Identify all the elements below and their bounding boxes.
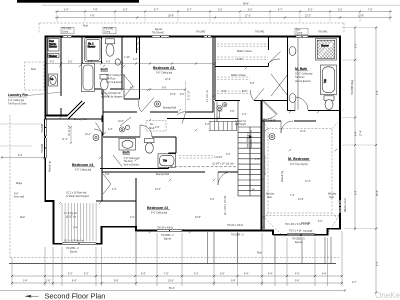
svg-text:Egress: Egress bbox=[70, 250, 78, 253]
svg-text:TW 2442: TW 2442 bbox=[104, 29, 114, 31]
bath2 inner door diagonal bbox=[113, 155, 122, 167]
svg-text:Tile Floor w/ Drain: Tile Floor w/ Drain bbox=[8, 103, 27, 106]
window header labels above top wall bbox=[61, 27, 328, 34]
bedroom2 closet door diagonals bbox=[103, 174, 111, 194]
svg-text:TW 2/4x4/6: TW 2/4x4/6 bbox=[152, 32, 164, 34]
window label bay egress bbox=[64, 240, 84, 254]
bottom extension lines bbox=[12, 231, 342, 286]
svg-text:Walk In Closet: Walk In Closet bbox=[231, 74, 246, 77]
svg-text:M. Bedroom: M. Bedroom bbox=[288, 157, 310, 161]
svg-text:4'-2": 4'-2" bbox=[68, 274, 73, 276]
svg-text:Seat: Seat bbox=[267, 196, 272, 199]
exterior bottom stepped walls bbox=[45, 200, 341, 244]
svg-text:4'-6": 4'-6" bbox=[322, 274, 327, 276]
svg-text:TW 2842: TW 2842 bbox=[196, 32, 206, 34]
left roof dashed vertical bbox=[9, 115, 11, 258]
room label bedroom3 bbox=[153, 66, 176, 75]
bedroom4 south wall y=201 bbox=[45, 200, 137, 202]
svg-text:Pant: Pant bbox=[49, 40, 54, 43]
svg-text:10'-0" Ceiling hgt: 10'-0" Ceiling hgt bbox=[295, 73, 313, 76]
hall west wall x=103 bbox=[102, 89, 104, 136]
bedroom2 door swing bbox=[218, 172, 231, 185]
svg-text:Bedroom #3: Bedroom #3 bbox=[153, 66, 174, 70]
room label bedroom4 bbox=[72, 163, 95, 172]
bedroom3 closet bifold doors bbox=[124, 74, 133, 99]
bath2 sink bbox=[119, 139, 136, 151]
svg-text:(2) 2 x 10 Flush hdr: (2) 2 x 10 Flush hdr bbox=[101, 92, 121, 95]
svg-text:Hand Railing w/: Hand Railing w/ bbox=[248, 132, 250, 148]
svg-text:28'-4": 28'-4" bbox=[377, 190, 379, 196]
stairwell upper west wall bbox=[215, 102, 218, 122]
top dimension row B bbox=[55, 15, 392, 18]
svg-text:(2) 1 3/4" x 14" LVL: (2) 1 3/4" x 14" LVL bbox=[225, 195, 227, 215]
svg-text:Vent to Exterior: Vent to Exterior bbox=[106, 81, 122, 84]
svg-text:6'-7": 6'-7" bbox=[154, 9, 159, 11]
plan title bbox=[25, 292, 106, 300]
svg-text:TW 2442: TW 2442 bbox=[318, 32, 328, 34]
bedroom4 door swing bbox=[94, 123, 102, 133]
svg-text:Dmr: Dmr bbox=[296, 29, 301, 32]
room label bedroom2 bbox=[147, 206, 170, 215]
bath1 toilet lower bbox=[100, 75, 108, 91]
svg-text:Bearing Wall: Bearing Wall bbox=[74, 118, 87, 121]
svg-text:Walk In Closet: Walk In Closet bbox=[237, 50, 252, 53]
svg-text:9'-0": 9'-0" bbox=[222, 91, 227, 93]
stair east bearing wall x=262 bbox=[261, 101, 263, 231]
svg-text:4'-0" Ceiling hgt: 4'-0" Ceiling hgt bbox=[124, 157, 140, 160]
svg-text:4'-2": 4'-2" bbox=[194, 274, 199, 276]
svg-text:Window: Window bbox=[328, 194, 337, 196]
bay ceiling joists bbox=[62, 203, 96, 241]
master bedroom door swing bbox=[281, 121, 293, 133]
linen closet dashed bbox=[146, 121, 166, 132]
svg-text:6'-7": 6'-7" bbox=[187, 9, 192, 11]
bedroom3 door swing bbox=[177, 112, 186, 124]
leader arrow marks bbox=[59, 65, 337, 233]
svg-text:6'-2": 6'-2" bbox=[248, 9, 253, 11]
master shower bbox=[316, 39, 337, 61]
stair up arrow bbox=[248, 134, 255, 192]
svg-text:2'-7": 2'-7" bbox=[352, 282, 357, 284]
staircase bbox=[238, 101, 262, 196]
master bedroom tray ceiling dashed bbox=[263, 123, 338, 220]
bedroom4 east wall x=102 bbox=[101, 116, 103, 202]
svg-text:17'-0": 17'-0" bbox=[305, 181, 311, 183]
svg-text:5'-2": 5'-2" bbox=[205, 124, 210, 126]
svg-text:56'-4": 56'-4" bbox=[169, 288, 175, 290]
laundry cabinets bbox=[48, 39, 59, 58]
svg-text:Seat: Seat bbox=[329, 196, 334, 199]
svg-text:Roof: Roof bbox=[83, 26, 88, 28]
landing south wall y=118.5 bbox=[167, 119, 316, 122]
svg-text:13'-0": 13'-0" bbox=[298, 199, 304, 201]
bedroom2 north bearing wall bbox=[102, 171, 238, 173]
svg-text:Knee wall: Knee wall bbox=[14, 197, 24, 199]
note clg jst bbox=[64, 212, 77, 218]
plumbing wall bedroom3 bbox=[137, 37, 140, 54]
master bath west wall x=287.5 bbox=[287, 37, 289, 111]
svg-text:M. Bath: M. Bath bbox=[295, 67, 307, 71]
svg-text:2'-4": 2'-4" bbox=[242, 114, 247, 116]
closet door swings bbox=[250, 52, 288, 101]
svg-text:Balusters @ 3" oc: Balusters @ 3" oc bbox=[250, 129, 253, 148]
svg-text:5'-8": 5'-8" bbox=[114, 281, 119, 283]
svg-text:13'-4": 13'-4" bbox=[155, 189, 161, 191]
svg-text:7'-8": 7'-8" bbox=[90, 15, 95, 17]
room label bath2 bbox=[123, 151, 140, 167]
hall circle symbols pair 2 bbox=[119, 125, 129, 132]
roof overhang dashed line top bbox=[39, 22, 344, 24]
svg-text:8'-4": 8'-4" bbox=[356, 131, 358, 136]
knee wall note bbox=[14, 194, 24, 199]
svg-text:6'-2": 6'-2" bbox=[123, 9, 128, 11]
right extension lines bbox=[342, 28, 378, 229]
svg-text:6'-10": 6'-10" bbox=[237, 59, 243, 61]
svg-text:12'-4": 12'-4" bbox=[85, 134, 91, 136]
svg-text:Egress: Egress bbox=[295, 241, 303, 244]
beam line bedroom2 bbox=[170, 166, 238, 168]
bottom dimension row 1 bbox=[11, 274, 343, 278]
bottom dimension row 3 overall bbox=[0, 282, 357, 292]
walk-in closet south wall y=99.5 bbox=[215, 100, 288, 102]
bath2 toilet bbox=[145, 139, 155, 154]
svg-text:CC 2 x 10 Flush hdr: CC 2 x 10 Flush hdr bbox=[66, 192, 87, 195]
closet hanging rods dashed bbox=[217, 44, 268, 93]
svg-text:6'-2": 6'-2" bbox=[338, 9, 343, 11]
bottom roof dashed overhang bbox=[10, 257, 341, 259]
svg-text:4'-0": 4'-0" bbox=[226, 154, 231, 156]
shower no1 bbox=[85, 38, 102, 62]
svg-text:9'-6": 9'-6" bbox=[295, 281, 300, 283]
svg-text:10'-8": 10'-8" bbox=[195, 217, 201, 219]
top dimension row A bbox=[55, 9, 392, 12]
svg-text:10'-6": 10'-6" bbox=[168, 281, 174, 283]
note roof hip bbox=[66, 192, 90, 198]
svg-text:9'-0": 9'-0" bbox=[180, 94, 185, 96]
svg-text:3'-0": 3'-0" bbox=[218, 111, 223, 113]
svg-text:98'-8": 98'-8" bbox=[243, 3, 249, 5]
exterior left wall bbox=[45, 36, 47, 201]
svg-text:2R 7 x 11 up: 2R 7 x 11 up bbox=[263, 119, 277, 121]
bath1 door swing bbox=[101, 89, 109, 98]
svg-text:Bedroom #4: Bedroom #4 bbox=[72, 163, 94, 167]
svg-text:6'-7": 6'-7" bbox=[278, 9, 283, 11]
left roof dashed box bbox=[25, 62, 45, 90]
svg-text:Tile Floor: Tile Floor bbox=[124, 160, 134, 163]
svg-text:Vent to: Vent to bbox=[49, 43, 57, 46]
smoke detector bedroom3 bbox=[155, 101, 161, 107]
svg-text:Ridge: Ridge bbox=[16, 183, 23, 185]
exterior top wall bbox=[45, 36, 340, 38]
svg-text:Shower: Shower bbox=[88, 45, 96, 48]
note flush hdr hall west bbox=[101, 92, 123, 98]
svg-text:Laundry Rm: Laundry Rm bbox=[8, 93, 28, 97]
svg-text:@ 16" o/c: @ 16" o/c bbox=[66, 216, 77, 218]
svg-text:Roof: Roof bbox=[31, 69, 36, 71]
svg-text:Tile Floor: Tile Floor bbox=[106, 78, 116, 81]
svg-text:12'-0": 12'-0" bbox=[300, 131, 306, 133]
svg-text:5'-10 1/2": 5'-10 1/2" bbox=[189, 90, 191, 100]
svg-text:9'-0": 9'-0" bbox=[162, 87, 167, 89]
stair railing balusters bbox=[209, 122, 237, 131]
svg-text:2 J 1/2 x 10: 2 J 1/2 x 10 bbox=[207, 89, 209, 102]
room label laundry bbox=[8, 92, 62, 106]
window seat labels bbox=[266, 194, 337, 199]
bedroom4 north bearing wall y=119 bbox=[45, 118, 103, 120]
svg-text:9'-0" Ceiling hgt: 9'-0" Ceiling hgt bbox=[156, 72, 172, 75]
laundry south wall bbox=[45, 115, 68, 117]
svg-text:Roof: Roof bbox=[20, 217, 25, 219]
bedroom2 west wall x=136 bbox=[135, 178, 137, 226]
svg-text:2x8 Height: 2x8 Height bbox=[235, 123, 246, 126]
svg-text:OneKey: OneKey bbox=[375, 291, 400, 300]
bath2 south wall bbox=[100, 168, 169, 170]
svg-text:5'-0": 5'-0" bbox=[318, 221, 323, 223]
svg-text:4'-2": 4'-2" bbox=[133, 59, 138, 61]
exterior right wall bbox=[339, 36, 341, 229]
svg-text:4'-0": 4'-0" bbox=[88, 61, 93, 63]
svg-text:TW 2852 - 2: TW 2852 - 2 bbox=[292, 239, 305, 241]
svg-text:1'-8 3/4": 1'-8 3/4" bbox=[214, 157, 223, 159]
roof hip dashed right bbox=[262, 216, 339, 235]
smoke detector bedroom4 bbox=[93, 135, 99, 141]
svg-text:Vent to Exterior: Vent to Exterior bbox=[295, 80, 311, 83]
svg-text:Washer: Washer bbox=[49, 55, 57, 58]
svg-text:12'-2": 12'-2" bbox=[305, 15, 311, 17]
svg-text:4'-6": 4'-6" bbox=[295, 274, 300, 276]
svg-text:TW 2/4 x 4/6 tilt: TW 2/4 x 4/6 tilt bbox=[157, 227, 173, 230]
laundry diagonal walls bbox=[67, 101, 85, 119]
bath2 door swing bbox=[140, 125, 152, 137]
svg-text:6'-2": 6'-2" bbox=[218, 9, 223, 11]
bath tub fixture left bbox=[82, 64, 95, 92]
svg-text:(2) 1 3/4" x 14" LVL: (2) 1 3/4" x 14" LVL bbox=[265, 155, 267, 175]
svg-text:1'-10": 1'-10" bbox=[124, 57, 130, 59]
svg-text:3'-6": 3'-6" bbox=[220, 274, 225, 276]
bottom dimension row 2 bbox=[11, 281, 343, 285]
svg-text:Egress: Egress bbox=[155, 28, 163, 31]
title bar bbox=[17, 0, 139, 3]
hall dim line bbox=[121, 87, 186, 90]
left leader line 2 bbox=[0, 145, 32, 147]
svg-text:9'-4": 9'-4" bbox=[18, 155, 23, 157]
bedroom3 hall door swing 2 bbox=[139, 98, 154, 112]
svg-text:11'-4": 11'-4" bbox=[62, 139, 68, 141]
svg-text:2'-0": 2'-0" bbox=[130, 217, 135, 219]
window label bedroom2 bbox=[157, 227, 174, 241]
bedroom3 south wall y=111.8 bbox=[103, 111, 214, 113]
svg-text:TW 2442: TW 2442 bbox=[62, 29, 72, 31]
svg-text:Bath: Bath bbox=[101, 68, 109, 72]
svg-text:12'-8": 12'-8" bbox=[358, 15, 364, 17]
svg-text:3'-4": 3'-4" bbox=[23, 281, 28, 283]
left leader line bbox=[0, 123, 42, 125]
bedroom4 interior dim line bbox=[70, 126, 72, 144]
roof edge verticals bottom bbox=[136, 232, 331, 264]
window end ticks bbox=[44, 35, 341, 245]
bedroom3 closet east wall bbox=[124, 53, 140, 99]
master bath south wall y=110.5 bbox=[288, 110, 341, 112]
svg-text:4'-6": 4'-6" bbox=[268, 274, 273, 276]
bath2 tub bbox=[158, 154, 176, 168]
svg-text:TW 2846 2hng: TW 2846 2hng bbox=[352, 79, 354, 95]
svg-text:TW 2 x 4 tilt: TW 2 x 4 tilt bbox=[289, 230, 301, 233]
svg-text:TW 2846 - 2: TW 2846 - 2 bbox=[161, 235, 174, 237]
bedroom3 interior dim extension bbox=[185, 81, 187, 111]
svg-text:Window Seat: Window Seat bbox=[344, 198, 347, 212]
svg-text:Comp: Comp bbox=[62, 32, 69, 34]
walk-in closet divider wall y=66 bbox=[215, 37, 269, 67]
hall circle symbols bbox=[217, 103, 227, 119]
svg-text:Comp: Comp bbox=[104, 32, 111, 34]
bedroom3 east wall x=213 bbox=[212, 37, 214, 113]
svg-text:8'-0": 8'-0" bbox=[242, 91, 247, 93]
room label master bedroom bbox=[288, 157, 310, 166]
svg-text:4'-6": 4'-6" bbox=[244, 274, 249, 276]
wall bath east x=122 bbox=[121, 37, 123, 77]
svg-text:9'-0" Ceiling hgt: 9'-0" Ceiling hgt bbox=[151, 212, 167, 215]
master toilet bbox=[324, 96, 334, 110]
svg-text:Window: Window bbox=[266, 194, 275, 196]
svg-text:7'-4": 7'-4" bbox=[73, 227, 78, 229]
window label master recessed bbox=[285, 223, 309, 244]
svg-text:No. 1: No. 1 bbox=[88, 44, 94, 46]
svg-text:8'-4": 8'-4" bbox=[72, 281, 77, 283]
bath south wall y=89 bbox=[82, 76, 122, 89]
interior dim labels scatter bbox=[62, 57, 323, 223]
svg-text:TW 2852 - 2: TW 2852 - 2 bbox=[66, 248, 79, 250]
hall door diagonal west bbox=[120, 117, 131, 126]
svg-text:TW 2846: TW 2846 bbox=[42, 123, 44, 133]
svg-text:4'-2": 4'-2" bbox=[130, 87, 135, 89]
bath2 (middle) walls bbox=[103, 137, 176, 169]
window label tw1846 bbox=[301, 223, 313, 233]
svg-text:Shower: Shower bbox=[321, 45, 329, 48]
svg-text:TW 2/4 x 4/6 tilt: TW 2/4 x 4/6 tilt bbox=[227, 224, 243, 227]
svg-text:15'-6": 15'-6" bbox=[170, 94, 176, 96]
svg-text:9'-0" Tray Clg hgt: 9'-0" Tray Clg hgt bbox=[290, 163, 308, 166]
svg-text:Egress: Egress bbox=[164, 237, 172, 240]
svg-text:Raised Clg: Raised Clg bbox=[282, 170, 284, 182]
svg-text:17'-3": 17'-3" bbox=[245, 15, 251, 17]
svg-text:7'-0": 7'-0" bbox=[164, 274, 169, 276]
svg-text:4'-2": 4'-2" bbox=[84, 274, 89, 276]
smoke detector master bbox=[269, 134, 275, 140]
linen shelves dashed bbox=[179, 156, 213, 159]
svg-text:12'-6": 12'-6" bbox=[165, 79, 171, 81]
svg-text:Exterior: Exterior bbox=[49, 46, 57, 49]
svg-text:8'-4": 8'-4" bbox=[356, 190, 358, 195]
svg-text:6'-2": 6'-2" bbox=[308, 9, 313, 11]
svg-text:2'-6": 2'-6" bbox=[230, 111, 235, 113]
svg-text:3'-4": 3'-4" bbox=[64, 9, 69, 11]
svg-text:4'-0": 4'-0" bbox=[106, 61, 111, 63]
laundry chute bump-out walls bbox=[47, 37, 61, 116]
svg-text:19'-8": 19'-8" bbox=[168, 15, 174, 17]
svg-text:Vent to Exterior: Vent to Exterior bbox=[124, 164, 140, 167]
svg-text:1'-6": 1'-6" bbox=[255, 159, 260, 161]
master bath door swing bbox=[295, 97, 308, 111]
svg-text:TW 2846: TW 2846 bbox=[42, 143, 44, 153]
bath1 sink bbox=[115, 59, 120, 65]
top overall dimension 98-8 bbox=[42, 3, 400, 5]
wall bath1/bath divider x=101.5 bbox=[101, 37, 103, 64]
svg-text:Bearing Wall: Bearing Wall bbox=[163, 107, 176, 110]
svg-text:(1) 3/4" x 14" LVL hdr: (1) 3/4" x 14" LVL hdr bbox=[212, 163, 234, 166]
walk-in closet west wall x=215 bbox=[214, 37, 216, 101]
svg-text:Roof: Roof bbox=[257, 253, 262, 255]
hall door to master suite bbox=[263, 101, 277, 120]
interior dim line top block bbox=[45, 61, 216, 64]
svg-text:Shelf: Shelf bbox=[149, 128, 155, 130]
svg-text:7'-8": 7'-8" bbox=[93, 9, 98, 11]
svg-text:16'-10 1/2": 16'-10 1/2" bbox=[69, 125, 71, 136]
svg-text:4'-0": 4'-0" bbox=[50, 61, 55, 63]
svg-text:9'-2": 9'-2" bbox=[356, 43, 358, 48]
svg-text:3'-8": 3'-8" bbox=[105, 174, 110, 176]
svg-text:5'-4": 5'-4" bbox=[141, 274, 146, 276]
svg-text:Second Floor Plan: Second Floor Plan bbox=[45, 292, 106, 300]
svg-text:10'-0" Ceiling hgt: 10'-0" Ceiling hgt bbox=[106, 74, 124, 77]
svg-text:TW 1846: TW 1846 bbox=[303, 231, 313, 233]
svg-text:w/ Metal Joist Hangers: w/ Metal Joist Hangers bbox=[66, 195, 90, 198]
right dimension column 2 bbox=[375, 26, 379, 293]
svg-text:Bath: Bath bbox=[123, 151, 131, 155]
room label master bath bbox=[295, 67, 313, 83]
svg-text:4'-6": 4'-6" bbox=[112, 189, 117, 191]
svg-text:Bedroom #2: Bedroom #2 bbox=[147, 206, 168, 210]
svg-text:Comp: Comp bbox=[296, 32, 303, 34]
svg-text:Tile Floor: Tile Floor bbox=[295, 76, 305, 79]
svg-text:2'-8": 2'-8" bbox=[155, 127, 160, 129]
svg-text:TW 2846 - 2: TW 2846 - 2 bbox=[231, 235, 244, 237]
svg-text:5'-8": 5'-8" bbox=[250, 83, 255, 85]
roof overhang dashed ends bbox=[38, 23, 40, 33]
svg-text:TW 2442: TW 2442 bbox=[255, 32, 265, 34]
svg-text:6'-2": 6'-2" bbox=[68, 61, 73, 63]
svg-text:1'-0": 1'-0" bbox=[46, 281, 51, 283]
svg-text:9'-8": 9'-8" bbox=[231, 281, 236, 283]
svg-text:37'-4": 37'-4" bbox=[361, 130, 363, 136]
svg-text:w/ Metal Jst Hangers: w/ Metal Jst Hangers bbox=[101, 95, 123, 98]
wall bath1 west x=82 bbox=[81, 37, 83, 90]
svg-text:9'-0" Ceiling hgt: 9'-0" Ceiling hgt bbox=[75, 169, 91, 172]
master tub bbox=[321, 65, 337, 95]
svg-text:7'-8": 7'-8" bbox=[368, 9, 373, 11]
bath1 toilet bbox=[106, 39, 115, 56]
svg-text:4'-0" Ceiling hgt: 4'-0" Ceiling hgt bbox=[8, 99, 24, 102]
svg-text:Raised clg: Raised clg bbox=[50, 161, 52, 172]
top extension lines bbox=[57, 13, 390, 22]
svg-text:9'-6": 9'-6" bbox=[14, 194, 19, 196]
svg-text:Bearing Wall: Bearing Wall bbox=[156, 173, 169, 176]
master bedroom west wall bbox=[263, 121, 265, 229]
svg-text:(2) 2 x 10 Flush hdr: (2) 2 x 10 Flush hdr bbox=[64, 240, 84, 243]
bottom roof eave line bbox=[9, 263, 336, 265]
svg-text:2 x 8 Clg Jst: 2 x 8 Clg Jst bbox=[64, 212, 77, 215]
svg-text:7'-4": 7'-4" bbox=[290, 195, 295, 197]
right dimension column 1 bbox=[352, 26, 358, 230]
laundry tub bbox=[49, 74, 58, 86]
svg-text:9'-2": 9'-2" bbox=[377, 261, 379, 266]
note flush hdr hall bbox=[235, 119, 276, 126]
room label bath1 bbox=[101, 68, 124, 85]
svg-text:TW 1846: TW 1846 bbox=[301, 223, 311, 225]
svg-text:9'-4": 9'-4" bbox=[377, 90, 379, 95]
left horizontal dim 9-4 bbox=[1, 155, 45, 159]
window label bedroom2 east bbox=[227, 224, 244, 237]
svg-text:3'-6": 3'-6" bbox=[108, 129, 113, 131]
